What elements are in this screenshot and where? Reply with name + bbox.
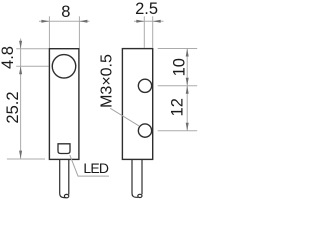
svg-text:4.8: 4.8 bbox=[0, 46, 17, 69]
svg-text:8: 8 bbox=[61, 3, 70, 21]
svg-text:LED: LED bbox=[83, 160, 109, 176]
svg-text:10: 10 bbox=[170, 58, 188, 76]
svg-text:M3×0.5: M3×0.5 bbox=[99, 54, 116, 108]
svg-text:2.5: 2.5 bbox=[135, 0, 158, 18]
svg-text:12: 12 bbox=[169, 98, 187, 116]
svg-text:25.2: 25.2 bbox=[4, 91, 22, 123]
